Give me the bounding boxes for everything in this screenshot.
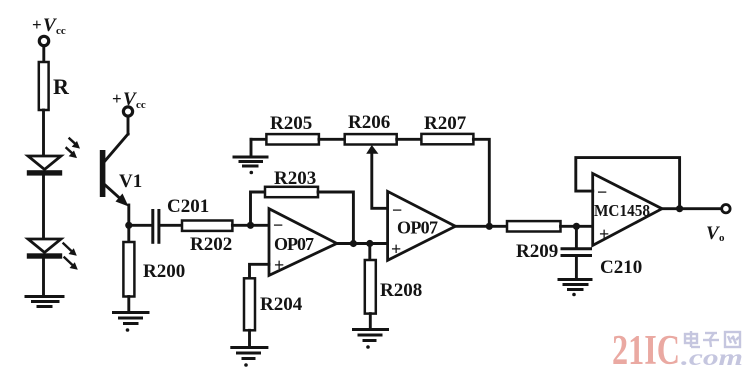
wire C201 to R202 xyxy=(161,224,182,227)
dot under ground (R204) xyxy=(244,363,248,367)
svg-text:+: + xyxy=(32,15,42,34)
svg-text:+: + xyxy=(112,89,122,108)
resistor R209 xyxy=(507,221,561,231)
resistor R205 xyxy=(266,134,319,144)
U2 plus pin xyxy=(391,239,401,259)
ground (R205 left end) xyxy=(234,139,267,166)
wire node B to OP07 U1 inverting input xyxy=(251,224,270,227)
wire R209 to node F xyxy=(561,225,593,228)
U2 OP07 text xyxy=(397,218,438,238)
wire emitter to node A xyxy=(127,205,130,225)
potentiometer R206 xyxy=(345,134,397,144)
ground (R200) xyxy=(114,313,149,324)
U3 MC1458 text xyxy=(594,201,650,220)
label R202 xyxy=(190,234,232,255)
svg-text:MC1458: MC1458 xyxy=(594,201,650,220)
label R207 xyxy=(424,113,467,134)
U3 plus pin xyxy=(599,224,609,244)
svg-text:−: − xyxy=(597,182,607,202)
light arrows out of VD2 xyxy=(64,244,78,270)
op-amp U2 OP07 xyxy=(388,191,456,260)
label R205 xyxy=(270,113,312,134)
wire R206 to R207 xyxy=(397,138,422,141)
svg-text:o: o xyxy=(719,232,725,244)
label R203 xyxy=(274,168,316,189)
capacitor C210 xyxy=(562,249,591,256)
+Vcc label (transistor) xyxy=(112,89,146,111)
node D junction xyxy=(486,223,493,230)
wire U3 output xyxy=(662,207,722,210)
svg-text:C201: C201 xyxy=(167,196,209,217)
ground (C210) xyxy=(559,280,591,290)
dot under ground (C210) xyxy=(572,293,576,297)
wire U2 output to R209 xyxy=(455,225,507,228)
photodiode VD1 xyxy=(27,156,62,176)
op-amp U1 OP07 xyxy=(269,209,337,276)
svg-text:+: + xyxy=(391,239,401,259)
watermark 21IC xyxy=(612,328,743,374)
svg-text:OP07: OP07 xyxy=(274,234,314,254)
svg-text:−: − xyxy=(273,215,283,235)
svg-text:R206: R206 xyxy=(348,112,390,133)
label V1 xyxy=(119,171,142,192)
resistor R204 xyxy=(244,278,255,330)
wire R208 to ground xyxy=(369,314,372,329)
wire VD2 to ground xyxy=(42,259,45,296)
svg-text:V: V xyxy=(706,223,720,244)
label R208 xyxy=(380,280,422,301)
wire node F to C210 xyxy=(575,226,578,248)
op-amp U3 MC1458 xyxy=(593,174,662,246)
watermark 电子网 glyphs xyxy=(685,331,740,347)
label C201 xyxy=(167,196,209,217)
resistor R xyxy=(39,62,49,110)
wire U1 noninverting input to R204 xyxy=(250,264,270,278)
node A junction xyxy=(125,222,132,229)
wire R205 to R206 xyxy=(319,138,345,141)
label R204 xyxy=(260,294,303,315)
ground (R208) xyxy=(354,330,388,341)
node E junction (R208 tap) xyxy=(366,240,373,247)
ground (R204) xyxy=(232,348,267,359)
svg-text:cc: cc xyxy=(136,99,146,111)
dot under ground (R208) xyxy=(366,345,370,349)
label R xyxy=(53,74,70,99)
svg-text:+: + xyxy=(599,224,609,244)
wire Vcc to R xyxy=(42,46,45,62)
power +Vcc terminal (left branch) xyxy=(39,36,48,45)
U1 OP07 text xyxy=(274,234,314,254)
dot under ground (R205) xyxy=(250,171,254,175)
wire node B up to R203 xyxy=(251,192,266,225)
svg-text:R: R xyxy=(53,74,70,99)
wire R204 to ground xyxy=(248,330,251,347)
U3 feedback wire xyxy=(576,158,680,209)
svg-text:V: V xyxy=(123,89,137,110)
wire U1 output to U2 noninverting input xyxy=(337,242,388,245)
svg-text:V: V xyxy=(43,15,57,36)
resistor R202 xyxy=(182,221,232,231)
resistor R207 xyxy=(421,134,473,144)
svg-text:V1: V1 xyxy=(119,171,142,192)
U2 minus pin xyxy=(392,200,402,220)
wire node E to R208 xyxy=(368,244,371,261)
label R200 xyxy=(143,261,185,282)
wire node A to C201 xyxy=(129,224,151,227)
svg-text:+: + xyxy=(274,255,284,275)
node B junction xyxy=(247,222,254,229)
svg-text:R207: R207 xyxy=(424,113,467,134)
capacitor C201 xyxy=(153,211,159,243)
svg-text:R205: R205 xyxy=(270,113,312,134)
resistor R203 xyxy=(265,187,318,197)
wire R202 to node B xyxy=(232,224,250,227)
svg-text:R202: R202 xyxy=(190,234,232,255)
node C junction xyxy=(350,240,357,247)
R200 wire from node A xyxy=(127,225,130,242)
wire R207 right and down to node D xyxy=(473,139,489,226)
resistor R200 xyxy=(123,242,134,297)
wire R203 to node C xyxy=(318,192,353,244)
label C210 xyxy=(600,257,642,278)
node G junction (U3 output) xyxy=(676,205,683,212)
svg-text:R203: R203 xyxy=(274,168,316,189)
label Vo xyxy=(706,223,725,244)
wire R to photodiode VD1 xyxy=(42,110,45,156)
transistor V1 xyxy=(100,116,129,206)
svg-text:.com: .com xyxy=(681,345,743,370)
wire R200 to ground xyxy=(127,297,130,313)
light arrows at VD1 xyxy=(67,139,81,159)
U1 minus pin xyxy=(273,215,283,235)
node F junction xyxy=(573,223,580,230)
ground (left branch) xyxy=(26,297,63,307)
output terminal Vo xyxy=(722,205,730,213)
svg-text:C210: C210 xyxy=(600,257,642,278)
svg-text:R209: R209 xyxy=(516,241,558,262)
svg-text:R208: R208 xyxy=(380,280,422,301)
U1 plus pin xyxy=(274,255,284,275)
svg-text:cc: cc xyxy=(56,25,66,37)
resistor R208 xyxy=(365,260,376,314)
svg-text:R204: R204 xyxy=(260,294,303,315)
+Vcc label (left branch) xyxy=(32,15,66,37)
dot under ground (R200) xyxy=(126,328,130,332)
photodiode VD2 xyxy=(27,239,62,259)
label R206 xyxy=(348,112,390,133)
wire C210 to ground xyxy=(575,256,578,280)
svg-text:OP07: OP07 xyxy=(397,218,438,238)
wire VD1 to VD2 xyxy=(42,176,45,239)
wire ground to R205 xyxy=(251,138,266,141)
power +Vcc terminal (transistor) xyxy=(123,107,132,116)
label R209 xyxy=(516,241,558,262)
U3 minus pin xyxy=(597,182,607,202)
svg-text:21IC: 21IC xyxy=(612,328,680,374)
R206 wiper arrow xyxy=(366,145,387,208)
svg-text:R200: R200 xyxy=(143,261,185,282)
